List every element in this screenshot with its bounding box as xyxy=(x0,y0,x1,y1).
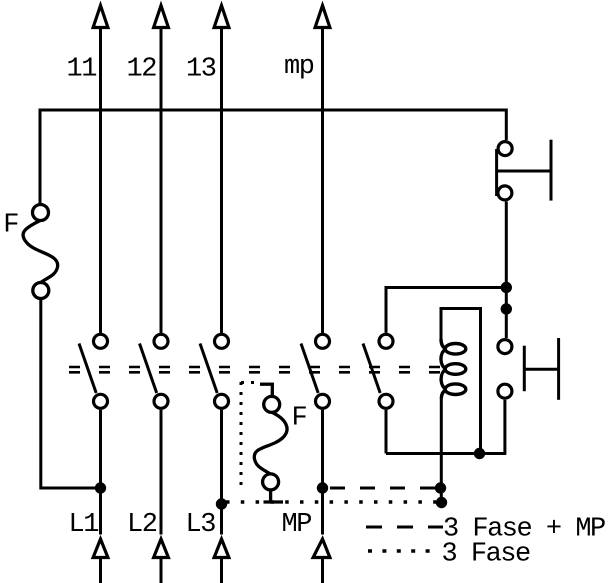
wire line 13 upper vertical xyxy=(220,27,223,333)
junction on L1 at fuse return xyxy=(95,482,106,493)
terminal arrow MP bottom xyxy=(313,539,330,583)
contact pole MP xyxy=(301,334,330,408)
contact pole L3 xyxy=(200,334,229,408)
junction coil feed on rail xyxy=(474,448,485,459)
legend dashed sample xyxy=(366,526,443,529)
junction node A xyxy=(501,282,512,293)
wire coil tail xyxy=(440,398,443,503)
terminal arrow L3 bottom xyxy=(214,539,229,583)
fuse F2 control xyxy=(254,384,287,502)
pushbutton S2 start (NO) xyxy=(498,338,559,400)
terminal arrow line 11 top xyxy=(93,6,108,28)
svg-text:F: F xyxy=(292,404,307,434)
junction dotted at coil tail xyxy=(436,497,447,508)
fuse F1 xyxy=(23,205,58,299)
wire line mp lower vertical xyxy=(321,410,324,535)
wire line 11 lower vertical xyxy=(99,410,102,535)
wire coil feed loop xyxy=(441,309,481,454)
wire fuse F1 return to L1 xyxy=(41,298,101,488)
terminal arrow line 12 top xyxy=(154,6,169,28)
auxiliary contact K1 xyxy=(363,334,393,408)
wire top control bus xyxy=(40,110,506,204)
wire line 12 lower vertical xyxy=(160,410,163,535)
svg-text:3 Fase: 3 Fase xyxy=(442,540,531,570)
contact pole L2 xyxy=(140,334,169,408)
terminal arrow line mp top xyxy=(315,6,330,28)
wire line 13 lower vertical xyxy=(220,410,223,535)
mechanical linkage dashed double line xyxy=(69,367,443,372)
svg-text:mp: mp xyxy=(284,52,314,82)
dotted wire vertical to fuse F2 xyxy=(240,382,243,492)
wire S1 to node A xyxy=(505,202,508,339)
wire bottom rail node B xyxy=(386,452,506,455)
wire line 12 upper vertical xyxy=(160,27,163,333)
svg-text:13: 13 xyxy=(186,55,216,85)
terminal arrow line 13 top xyxy=(214,6,229,28)
svg-text:L2: L2 xyxy=(127,510,157,540)
junction dashed at coil tail xyxy=(435,482,446,493)
junction on L3 at dotted tap xyxy=(216,498,227,509)
svg-text:11: 11 xyxy=(67,55,97,85)
coil K1 xyxy=(441,339,466,399)
wire line mp upper vertical xyxy=(321,27,324,333)
junction node below A xyxy=(501,303,512,314)
svg-text:L1: L1 xyxy=(69,510,99,540)
svg-text:F: F xyxy=(3,211,18,241)
svg-text:L3: L3 xyxy=(186,510,216,540)
svg-text:MP: MP xyxy=(282,510,312,540)
terminal arrow L2 bottom xyxy=(154,539,169,583)
dotted wire L3 to coil (3 Fase) xyxy=(226,500,436,504)
svg-text:12: 12 xyxy=(127,55,157,85)
junction on MP at dashed tap xyxy=(317,482,328,493)
legend dotted sample xyxy=(368,549,430,553)
wire aux contact to bottom rail xyxy=(385,410,388,454)
wire node A to aux contact xyxy=(386,288,506,333)
wire line 11 upper vertical xyxy=(99,27,102,333)
terminal arrow L1 bottom xyxy=(93,539,108,583)
contact pole L1 xyxy=(79,334,108,408)
dashed wire MP to coil (3 Fase + MP) xyxy=(330,487,440,490)
pushbutton S1 stop (NC) xyxy=(497,140,551,201)
dotted jog to fuse F2 top xyxy=(241,381,258,384)
wire S2 bottom to rail xyxy=(503,400,506,454)
